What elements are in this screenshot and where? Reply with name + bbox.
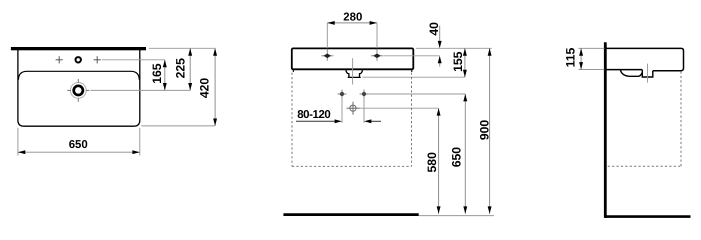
svg-text:580: 580	[425, 152, 439, 173]
svg-text:165: 165	[150, 63, 164, 84]
svg-text:900: 900	[477, 120, 491, 141]
svg-text:420: 420	[197, 78, 211, 99]
svg-text:650: 650	[69, 139, 88, 151]
svg-text:225: 225	[173, 58, 187, 79]
svg-text:155: 155	[451, 51, 465, 72]
svg-text:650: 650	[449, 147, 463, 168]
svg-text:80-120: 80-120	[297, 109, 330, 121]
svg-text:280: 280	[343, 11, 362, 23]
svg-text:40: 40	[427, 22, 441, 36]
svg-text:115: 115	[563, 47, 577, 67]
